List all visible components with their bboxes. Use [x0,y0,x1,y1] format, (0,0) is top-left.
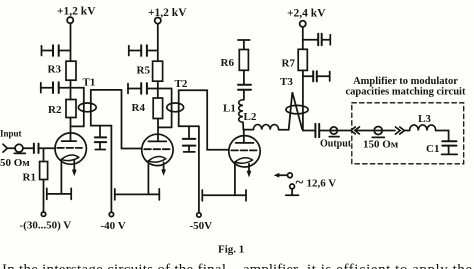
svg-text:-40 V: -40 V [101,220,126,232]
transformer T1 primary winding [83,88,85,127]
tube V3 envelope [229,136,260,167]
tube V3 cathode [235,158,253,164]
wire anode junction to T1 primary [71,125,84,127]
svg-text:R1: R1 [23,172,36,184]
capacitor bypass C-a (stage1 top) [42,45,71,56]
inductor L3 [410,125,436,131]
capacitor series (R6 leg) [238,85,251,90]
transformer T1 secondary winding [90,90,92,126]
transformer T3 link winding [289,92,302,130]
terminal +2.4kV [300,21,306,27]
svg-text:In the interstage circuits of: In the interstage circuits of the final [2,262,226,269]
dashed matching box [352,103,464,164]
capacitor bypass C-f (below R7) [303,71,330,81]
terminal +1.2kV stage2 [155,18,161,24]
capacitor grid-bypass stage2 [183,126,196,152]
wire supply2 down [157,24,159,61]
svg-text:12,6 V: 12,6 V [307,177,337,189]
svg-text:+1,2 kV: +1,2 kV [57,6,96,18]
svg-text:it is efficient to apply the: it is efficient to apply the [307,262,472,269]
tube V2 filament arrow [161,162,166,176]
svg-text:Fig. 1: Fig. 1 [218,244,244,256]
transformer T2 core [167,103,184,112]
wire to input cap [23,147,34,149]
svg-text:L2: L2 [244,111,257,123]
wire T1 secondary top to tube2 grid [91,90,142,149]
tube V3 grid [231,149,257,151]
resistor R1 [40,162,48,180]
wire L3 to C1 [436,131,449,141]
capacitor bypass C-d (stage2 lower) + wire to T2 [128,83,172,94]
wire L2 to T3 link [279,129,289,131]
transformer T2 primary winding [171,89,173,128]
svg-text:+2,4 kV: +2,4 kV [287,7,326,19]
wire R5 to R4 [157,81,159,98]
wire R1 to bias terminal [43,180,45,213]
tube V2 envelope [142,134,173,165]
wire T1 secondary bottom [91,125,112,127]
filament rail stage3 [202,190,246,201]
svg-text:C1: C1 [426,143,439,155]
svg-text:Amplifier to modulator: Amplifier to modulator [353,76,458,87]
capacitor output coupling [315,124,319,137]
transformer T2 secondary winding [178,90,180,126]
wire to L3 [404,130,409,132]
svg-text:R5: R5 [137,64,151,76]
wire cap to tube1 grid [39,147,55,149]
svg-text:amplifier: amplifier [243,262,298,269]
resistor R2 [66,100,76,118]
inductor L2 [253,125,278,130]
tube V1 grid [57,147,82,149]
wire supply3 down [302,27,304,49]
capacitor bypass C-b (stage1 lower) + wire to T1 [41,82,84,93]
transformer T1 core [78,103,96,112]
resistor R6 [239,50,248,71]
capacitor bypass C-e (top right) [303,34,331,45]
wire chevrons to 150Om terminal [355,130,395,132]
wire R2 to tube1 anode [70,118,72,142]
tube V2 grid [144,148,170,150]
svg-text:R7: R7 [282,57,296,69]
terminal +1.2kV stage1 [67,17,73,23]
svg-text:-50V: -50V [190,220,213,232]
terminal 150 Om [372,127,384,138]
tube V3 filament arrow [247,164,252,178]
wire grid junction to R1 [43,148,45,161]
terminal Output [329,127,339,137]
svg-text:R4: R4 [132,102,146,114]
wire T2 secondary bottom [179,125,199,127]
resistor R5 [153,61,163,81]
svg-text:T3: T3 [280,76,293,88]
tube V3 cathode lead [234,162,236,195]
wire supply1 down [70,23,72,61]
wire cap to output terminal [319,130,350,132]
tube V1 anode [62,140,76,142]
input terminal [14,144,25,153]
input plug chevron [3,144,7,152]
svg-text:+1,2 kV: +1,2 kV [148,7,187,19]
svg-text:150 Ом: 150 Ом [363,139,399,151]
capacitor input coupling [34,144,39,153]
tube V2 anode [148,140,166,142]
wire junction to L2 [243,129,253,131]
svg-text:capacities matching circuit: capacities matching circuit [346,87,466,98]
heater arrow terminal [274,173,293,178]
terminal -(30...50)V [41,212,45,216]
svg-text:L3: L3 [418,113,431,125]
tube V3 anode [236,142,254,144]
resistor R4 [153,98,162,119]
filament rail stage2 [115,189,160,200]
resistor R7 [298,49,307,70]
wire R6 to cap [243,70,245,84]
resistor R3 [66,61,76,80]
svg-text:Output: Output [320,138,352,149]
tube V1 envelope [55,133,86,164]
svg-text:T1: T1 [83,76,96,88]
svg-text:50 Ом: 50 Ом [0,157,30,169]
wire cap to L1 [243,90,245,100]
filament rail stage1 [47,188,71,199]
tube V1 cathode lead [60,159,62,194]
wire junction to tube3 anode [243,130,245,143]
svg-text:Input: Input [0,129,22,139]
wire anode junction to T2 primary [158,126,172,128]
capacitor grid-bypass stage1 [95,126,106,150]
wire to -40V terminal [110,126,112,213]
wire R3 to R2 [70,80,72,99]
connector chevrons right [396,127,405,134]
heater terminal 2 with ground [286,184,299,195]
tube V2 cathode lead [147,161,149,195]
wire R4 to tube2 anode [157,119,159,142]
svg-text:R6: R6 [221,57,235,69]
svg-text:~: ~ [296,175,304,191]
wire T2 secondary top to tube3 grid [179,90,229,150]
terminal -50V [197,213,201,217]
tube V2 cathode [148,157,165,163]
ground bar above R6 [238,40,250,50]
tube V1 cathode [61,155,78,161]
inductor L1 [239,100,243,122]
connector chevrons left [351,127,360,134]
svg-text:-(30...50) V: -(30...50) V [20,220,72,232]
svg-text:T2: T2 [175,78,188,90]
capacitor bypass C-c (stage2 top) [129,45,158,56]
tube V1 filament arrow [72,160,77,176]
terminal -40V [109,212,113,216]
wire input [7,147,15,149]
wire L1 to anode junction [242,122,244,129]
wire to -50V terminal [198,126,200,213]
wire R7 down through T3 to output line [303,70,315,130]
transformer T3 core [286,105,308,113]
capacitor C1 [442,141,458,154]
svg-text:R3: R3 [48,64,62,76]
svg-text:R2: R2 [48,104,62,116]
svg-text:L1: L1 [223,103,236,115]
